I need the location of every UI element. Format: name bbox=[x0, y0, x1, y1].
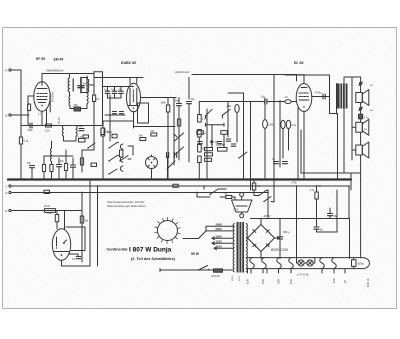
capacitor 5000p heater bbox=[352, 260, 357, 267]
tube V3 EL84 bbox=[296, 84, 312, 112]
wire V2 tops bbox=[130, 78, 137, 84]
wire bbox=[167, 112, 169, 179]
pot near socket bbox=[167, 161, 175, 169]
ratio det coil B bbox=[76, 126, 77, 137]
wire bridge top bbox=[260, 219, 262, 225]
wire row y121 bbox=[103, 120, 134, 122]
IF T1 core bar bbox=[72, 79, 74, 91]
heater bus lower bbox=[246, 268, 364, 270]
svg-text:6,3V: 6,3V bbox=[290, 279, 293, 284]
wire bbox=[254, 190, 259, 196]
svg-text:B: B bbox=[6, 113, 8, 117]
lamp LP1 bbox=[298, 260, 304, 266]
svg-text:(Klammerwerte gelt. Allstrombe: (Klammerwerte gelt. Allstrombetr.) bbox=[107, 204, 146, 208]
switch S4 bbox=[258, 191, 266, 197]
wire bbox=[105, 114, 125, 116]
resistor 40k mid bbox=[140, 138, 146, 141]
wire OT bottom down bbox=[337, 114, 339, 180]
wire bbox=[134, 126, 176, 128]
wire bbox=[69, 92, 71, 95]
coil det secondary bbox=[87, 93, 88, 104]
svg-text:220V: 220V bbox=[232, 275, 234, 281]
wire x90 bbox=[89, 180, 91, 267]
wire eye top bbox=[56, 222, 58, 229]
terminal B bbox=[6, 113, 12, 117]
wire bbox=[188, 78, 190, 100]
svg-text:6,3V: 6,3V bbox=[262, 279, 265, 284]
resistor 2M eye bbox=[80, 216, 83, 223]
speaker SP2 bbox=[356, 119, 369, 135]
terminal E bbox=[6, 209, 12, 213]
wire out right bbox=[89, 84, 94, 86]
wire V1 cathode down bbox=[41, 111, 43, 125]
wire af mid bbox=[206, 124, 225, 126]
svg-text:2M: 2M bbox=[85, 220, 88, 223]
wire bbox=[352, 119, 361, 158]
line C dots bbox=[97, 185, 99, 187]
output transformer core bbox=[337, 84, 348, 109]
svg-text:D: D bbox=[6, 191, 8, 195]
tone box row1 bbox=[197, 131, 204, 135]
dots tone bbox=[223, 144, 225, 146]
svg-text:127V: 127V bbox=[239, 275, 241, 281]
capacitor 40p det bbox=[79, 129, 84, 131]
wire bbox=[128, 158, 131, 160]
svg-text:5000p: 5000p bbox=[358, 264, 365, 266]
svg-text:0,8/0,5A: 0,8/0,5A bbox=[211, 275, 220, 278]
wire bbox=[102, 121, 104, 128]
resistor x82 bbox=[80, 158, 83, 165]
svg-text:6,3V: 6,3V bbox=[333, 278, 336, 283]
resistor col x52 bbox=[50, 165, 53, 172]
bridge rectifier bbox=[248, 225, 275, 252]
bus line C bbox=[12, 185, 349, 187]
wire x298 down bbox=[297, 108, 299, 179]
box 15k bbox=[91, 163, 97, 167]
wire 115V bbox=[251, 218, 350, 220]
svg-text:4700p: 4700p bbox=[315, 93, 322, 95]
svg-text:6,3V: 6,3V bbox=[247, 279, 250, 284]
wire bbox=[223, 134, 225, 147]
svg-text:4Ω: 4Ω bbox=[364, 129, 367, 131]
wire row y97 bbox=[141, 97, 177, 99]
heater bus right end bbox=[364, 258, 370, 269]
cap x121 bbox=[119, 91, 124, 93]
wire x82 eye bbox=[81, 193, 83, 263]
svg-text:Continental: Continental bbox=[107, 248, 128, 252]
wire bridge bottom bbox=[260, 252, 262, 259]
caps 1u pair bbox=[274, 162, 279, 164]
winding loop 1 bbox=[250, 258, 255, 269]
resistor 10k right bbox=[101, 128, 104, 135]
resistor 250 dark bbox=[74, 107, 81, 111]
resistor 0,5M bbox=[198, 156, 202, 163]
switch S2 bbox=[238, 152, 247, 159]
wire OT sec down bbox=[343, 109, 345, 174]
svg-text:150V: 150V bbox=[216, 234, 223, 238]
wire x268 down bbox=[267, 193, 269, 219]
wire bbox=[316, 186, 318, 226]
capacitor 350u bbox=[277, 237, 283, 239]
resistor 2M mid bbox=[151, 133, 157, 136]
dial circle bbox=[155, 217, 181, 243]
grid resistor oval bbox=[285, 100, 291, 104]
wire bbox=[203, 186, 205, 189]
wire bbox=[288, 129, 290, 150]
vert wire x243 bbox=[243, 93, 245, 179]
resistor col x44 bbox=[42, 165, 45, 172]
resistor grid V1 bbox=[28, 104, 31, 111]
speaker SP3 bbox=[356, 142, 369, 158]
wire bbox=[151, 171, 153, 180]
capacitor 0,1 V1 bbox=[93, 95, 96, 102]
capacitor 50p bbox=[30, 166, 35, 168]
wire left vertical bbox=[20, 70, 22, 137]
heater stub ticks bbox=[247, 269, 249, 273]
dark node 4ohm bbox=[210, 140, 213, 143]
wire bbox=[51, 141, 53, 148]
svg-text:0,5M: 0,5M bbox=[268, 125, 273, 127]
vert wire x102 bbox=[94, 72, 103, 126]
resistor 2M b bbox=[198, 130, 202, 138]
svg-text:0,7A: 0,7A bbox=[234, 209, 239, 212]
wire bbox=[282, 129, 284, 158]
wire bbox=[232, 197, 235, 200]
wire bridge right bbox=[275, 237, 281, 239]
switch S3 low bbox=[209, 189, 218, 195]
wire eye top2 bbox=[64, 211, 66, 230]
power transformer bbox=[233, 222, 247, 273]
wire bbox=[81, 150, 83, 172]
wire bbox=[56, 211, 58, 215]
vert wire x280 bbox=[279, 101, 281, 168]
terminal A bbox=[6, 68, 12, 72]
capacitor eye bbox=[76, 257, 81, 259]
wire bbox=[82, 126, 94, 151]
wire V1 screen down bbox=[46, 110, 48, 126]
svg-text:250: 250 bbox=[74, 104, 79, 107]
svg-text:220V: 220V bbox=[216, 227, 223, 231]
wire bbox=[228, 92, 244, 94]
winding loop 5 bbox=[320, 258, 325, 269]
wire bbox=[250, 102, 252, 191]
wire V2 bottom bbox=[133, 112, 135, 128]
wire bbox=[27, 110, 29, 126]
svg-text:50/150mV: 50/150mV bbox=[53, 91, 55, 102]
wire x274 low bbox=[271, 201, 274, 204]
wire bbox=[173, 98, 175, 166]
oval 0,1u pair bbox=[281, 120, 285, 128]
coupling capacitor 10n bbox=[265, 99, 267, 104]
box on C line bbox=[173, 184, 179, 187]
wire bbox=[64, 136, 77, 141]
coil L3 bbox=[50, 148, 51, 162]
svg-text:C: C bbox=[6, 184, 8, 188]
vert wire x94 bbox=[93, 74, 95, 96]
resistor 4,7k fb bbox=[315, 192, 318, 199]
wire bbox=[218, 188, 226, 190]
capacitor col x73 bbox=[71, 165, 76, 167]
box under V2 right bbox=[138, 103, 149, 123]
mains line bbox=[160, 269, 233, 271]
svg-text:Bandbr.: Bandbr. bbox=[58, 116, 61, 124]
wire grid EL84 bbox=[251, 101, 297, 103]
svg-text:0,1µ: 0,1µ bbox=[292, 125, 297, 127]
wire row y98 bbox=[108, 97, 122, 99]
vert wire x296 bbox=[296, 75, 298, 82]
vert wire x274 bbox=[273, 75, 275, 203]
svg-text:EM 84: EM 84 bbox=[54, 58, 64, 62]
IF T1 secondary coil bbox=[88, 79, 89, 93]
wire top feed bbox=[94, 77, 143, 79]
capacitor 4,7u B bbox=[252, 183, 255, 190]
wire bbox=[86, 76, 88, 78]
svg-text:~ 115 V: ~ 115 V bbox=[262, 214, 271, 218]
wire x337 bbox=[336, 190, 338, 232]
capacitor 8u bbox=[314, 227, 319, 229]
svg-text:SW/KW/MW/LW: SW/KW/MW/LW bbox=[46, 70, 64, 73]
wire lamp feed bbox=[296, 186, 298, 258]
wire B bbox=[11, 114, 29, 116]
tone box A5030 bbox=[218, 148, 228, 152]
svg-text:2,2k: 2,2k bbox=[45, 130, 50, 133]
svg-text:(2. Teil des Schaltbildes): (2. Teil des Schaltbildes) bbox=[131, 257, 176, 261]
capacitor col x59 bbox=[57, 165, 62, 167]
svg-text:I 807 W Dunja: I 807 W Dunja bbox=[129, 247, 172, 254]
tube V1 EF85 bbox=[34, 82, 50, 112]
svg-text:6,8k: 6,8k bbox=[47, 212, 52, 215]
capacitor 50u bbox=[177, 104, 182, 106]
oval 0,5M bbox=[263, 120, 268, 129]
wire x349 bbox=[349, 219, 351, 259]
wire top to x94 bbox=[66, 73, 94, 75]
wire bridge left bbox=[246, 237, 247, 239]
svg-text:4V: 4V bbox=[344, 280, 347, 283]
heater bus upper bbox=[246, 257, 364, 259]
wire x351 bus end bbox=[350, 173, 352, 190]
terminal D bbox=[6, 191, 12, 195]
wire V3 top bbox=[285, 75, 304, 84]
speaker terminal T1 bbox=[359, 82, 363, 86]
eye frame bbox=[66, 227, 85, 251]
wire bbox=[264, 98, 266, 120]
svg-text:6,3V 1A: 6,3V 1A bbox=[367, 278, 370, 287]
capacitor 10u bbox=[187, 102, 192, 104]
resistor 300k b bbox=[177, 119, 180, 126]
wire E line bbox=[12, 210, 82, 212]
potentiometer P1 bbox=[174, 133, 184, 155]
switch cluster AF bbox=[205, 105, 239, 119]
voltage selector bbox=[183, 222, 233, 249]
svg-text:Abstimmanz.: Abstimmanz. bbox=[174, 70, 190, 74]
lamp LP2 bbox=[307, 260, 313, 266]
resistor 6,8k det bbox=[83, 135, 89, 138]
svg-text:125V: 125V bbox=[216, 239, 223, 243]
fuse bbox=[214, 269, 223, 272]
IF T1 primary coil bbox=[68, 78, 69, 92]
resistor on D line bbox=[44, 190, 50, 193]
wire eye bottom bbox=[62, 254, 91, 266]
resistor 0,1u left bbox=[19, 137, 22, 144]
resistor 2,2k bbox=[46, 124, 52, 127]
resistor 300k bbox=[166, 105, 169, 112]
wire A bbox=[11, 69, 21, 71]
wire bbox=[81, 92, 88, 94]
wire bbox=[86, 78, 88, 93]
svg-text:4,5V: 4,5V bbox=[227, 106, 232, 108]
svg-text:a 7V 0,3A: a 7V 0,3A bbox=[297, 273, 309, 277]
wire bbox=[253, 179, 255, 183]
switch bank S1 bbox=[108, 142, 128, 175]
wire bbox=[188, 104, 190, 162]
wire bbox=[198, 163, 200, 180]
capacitor 400p bbox=[30, 123, 32, 128]
svg-text:4Ω: 4Ω bbox=[215, 141, 218, 144]
svg-text:300k: 300k bbox=[161, 102, 167, 105]
wire bbox=[317, 229, 338, 232]
svg-text:4Ω: 4Ω bbox=[370, 85, 373, 87]
svg-text:EABC 80: EABC 80 bbox=[121, 61, 136, 65]
svg-text:EF 85: EF 85 bbox=[36, 57, 45, 61]
winding loop 6 bbox=[332, 258, 337, 269]
wire bbox=[227, 102, 229, 138]
wire bbox=[198, 137, 200, 145]
svg-text:4,7k: 4,7k bbox=[310, 189, 315, 192]
wire V3 plate rail bbox=[304, 75, 338, 114]
resistor 300k mid bbox=[112, 134, 117, 138]
ground bus bbox=[8, 178, 351, 180]
wire bbox=[81, 104, 88, 109]
wire bbox=[102, 136, 104, 179]
resistor under V2 bbox=[101, 128, 105, 136]
wire bbox=[167, 98, 169, 106]
tiny vert labels bbox=[247, 278, 371, 287]
wire bbox=[211, 125, 213, 148]
speaker terminal T2 bbox=[359, 107, 363, 111]
cap x114 bbox=[112, 91, 117, 93]
capacitor 50u psu bbox=[328, 214, 333, 216]
wire bbox=[264, 128, 266, 179]
wire sel to trafo bbox=[233, 225, 234, 227]
resistor on E line bbox=[45, 209, 56, 213]
wire bbox=[109, 95, 111, 141]
wire lamp links bbox=[297, 258, 315, 263]
wire V3 cathode bbox=[303, 112, 305, 180]
wire x97 bbox=[97, 186, 99, 266]
svg-text:350 µ: 350 µ bbox=[283, 230, 290, 234]
wire bbox=[81, 78, 88, 80]
bus line D bbox=[12, 192, 268, 194]
top long wire bbox=[192, 74, 297, 76]
wire bbox=[20, 144, 22, 180]
resistor 1M bbox=[198, 145, 202, 153]
IF T1 core bar2 bbox=[80, 78, 82, 93]
IF T1 tuning cap bbox=[78, 81, 84, 92]
svg-text:4Ω: 4Ω bbox=[370, 110, 373, 112]
winding loop 3 bbox=[277, 258, 282, 269]
wire loop left bbox=[206, 109, 208, 179]
wire row y156 bbox=[44, 155, 73, 157]
wire bbox=[198, 102, 200, 115]
resistor col x66 bbox=[64, 164, 67, 171]
wire bbox=[360, 77, 362, 114]
resistor 6,8k det2 bbox=[79, 139, 86, 143]
svg-text:50µ: 50µ bbox=[334, 215, 339, 218]
vert wire x51 bbox=[49, 93, 51, 112]
tube V2 EABC80 bbox=[127, 83, 141, 112]
ratio det coil A bbox=[62, 126, 63, 137]
capacitor 5000p tone bbox=[231, 144, 236, 146]
svg-text:A: A bbox=[6, 68, 8, 72]
svg-text:0,1µ: 0,1µ bbox=[24, 140, 29, 143]
wire loop top bbox=[199, 101, 250, 103]
resistor 5k bbox=[226, 196, 232, 199]
wire top right rail bbox=[297, 74, 305, 76]
tube V4 EM84 bbox=[52, 229, 70, 261]
wire speaker chain vert bbox=[360, 158, 362, 258]
svg-text:EL 84: EL 84 bbox=[294, 61, 304, 65]
svg-text:2M: 2M bbox=[151, 131, 154, 133]
svg-text:60 0V: 60 0V bbox=[44, 206, 50, 208]
socket G bbox=[146, 155, 158, 171]
wire bbox=[197, 193, 210, 198]
svg-text:E: E bbox=[6, 209, 8, 213]
wire bbox=[69, 74, 71, 79]
wire bbox=[128, 146, 133, 155]
mains switch bbox=[198, 266, 208, 271]
feedback box bbox=[301, 130, 361, 173]
OT secondary wires bbox=[344, 77, 361, 160]
wire bbox=[279, 239, 281, 259]
svg-text:0,6V: 0,6V bbox=[278, 279, 281, 284]
capacitor 4700p bbox=[323, 94, 325, 99]
switch det bbox=[87, 143, 95, 149]
terminal C bbox=[6, 184, 12, 188]
wire bbox=[70, 106, 74, 109]
wire V1 plate top bbox=[42, 74, 66, 83]
caps eabc diode bbox=[113, 112, 117, 114]
svg-text:300k: 300k bbox=[107, 132, 113, 134]
resistor 6,8k eye bbox=[55, 215, 58, 222]
wire bbox=[93, 102, 95, 126]
svg-text:240V: 240V bbox=[216, 222, 223, 226]
wire bbox=[279, 219, 281, 237]
resistor 1,5M mid bbox=[120, 150, 123, 157]
line D dots bbox=[81, 192, 83, 194]
svg-text:10µ: 10µ bbox=[191, 99, 196, 101]
trapezoid divider bbox=[232, 193, 253, 218]
cap pair mid bbox=[167, 153, 169, 158]
capacitor 4,7u spk bbox=[359, 114, 363, 119]
svg-text:55 W: 55 W bbox=[191, 252, 200, 256]
tone box row2 bbox=[205, 148, 213, 151]
OT primary side wire bbox=[336, 84, 338, 115]
speaker SP1 bbox=[356, 90, 369, 106]
cap x107 bbox=[105, 91, 110, 93]
node row y125 bbox=[21, 125, 103, 127]
svg-text:400p: 400p bbox=[28, 130, 34, 132]
wire bbox=[266, 190, 268, 193]
tone caps row bbox=[198, 142, 203, 144]
wire row y86.5 bbox=[103, 86, 134, 88]
wire bbox=[236, 113, 238, 143]
winding loop 2 bbox=[262, 258, 267, 269]
wire x349 mid bbox=[348, 186, 350, 219]
svg-text:470k: 470k bbox=[292, 182, 298, 185]
bus junction dots bbox=[20, 179, 22, 181]
svg-text:Spannungsmessungen: 100 Ω/V: Spannungsmessungen: 100 Ω/V bbox=[107, 200, 145, 204]
wire bbox=[220, 196, 226, 198]
